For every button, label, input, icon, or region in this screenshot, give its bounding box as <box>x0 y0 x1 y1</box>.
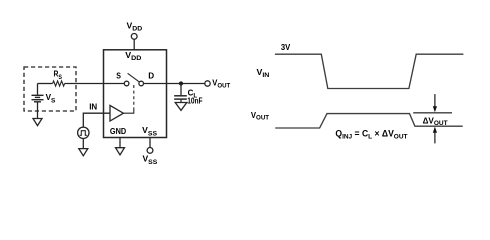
switch IC box <box>104 50 167 138</box>
svg-text:RS: RS <box>54 69 63 81</box>
wire VDD to box <box>133 39 135 50</box>
switch D contact <box>139 81 144 86</box>
wire pulse source to buffer input <box>83 113 110 127</box>
arrow down (delta top) <box>434 94 436 107</box>
svg-text:IN: IN <box>89 101 97 111</box>
resistor RS <box>53 81 65 86</box>
reference level line <box>413 112 452 114</box>
driver buffer <box>110 105 123 121</box>
arrow up (delta bottom) <box>434 132 436 144</box>
wire resistor to switch S <box>65 83 125 85</box>
svg-text:VOUT: VOUT <box>212 78 231 90</box>
svg-text:ΔVOUT: ΔVOUT <box>423 115 449 127</box>
svg-text:10nF: 10nF <box>187 96 202 106</box>
VOUT terminal circle <box>205 81 210 86</box>
svg-text:GND: GND <box>110 126 126 136</box>
VOUT waveform <box>275 114 463 128</box>
source box (dashed) <box>24 67 76 111</box>
VIN waveform <box>275 54 464 88</box>
ground (GND pin) <box>116 148 125 155</box>
VDD terminal circle <box>131 34 137 40</box>
svg-text:VOUT: VOUT <box>251 110 270 122</box>
svg-text:QINJ = CL × ΔVOUT: QINJ = CL × ΔVOUT <box>335 128 408 140</box>
svg-text:VSS: VSS <box>143 153 158 166</box>
wire VSS pin <box>149 138 151 148</box>
capacitor CL <box>180 84 182 96</box>
switch lever <box>128 73 140 82</box>
svg-text:3V: 3V <box>281 42 291 52</box>
svg-text:D: D <box>148 71 154 81</box>
battery VS <box>37 84 39 96</box>
VSS terminal circle <box>147 148 153 154</box>
ground (source) <box>33 119 42 126</box>
svg-text:VIN: VIN <box>257 67 270 79</box>
svg-text:VSS: VSS <box>142 125 157 138</box>
ground (pulse) <box>79 149 88 156</box>
switch control dashed line <box>133 85 135 110</box>
switch S contact <box>124 81 129 86</box>
svg-text:VS: VS <box>46 92 56 104</box>
pulse generator <box>78 127 89 138</box>
svg-text:S: S <box>116 70 121 80</box>
wire GND pin <box>119 138 121 148</box>
ground (capacitor) <box>175 103 187 111</box>
wire buffer output to control <box>123 110 133 114</box>
wire pulse to ground <box>82 139 84 149</box>
svg-text:VDD: VDD <box>125 50 141 62</box>
wire D to VOUT <box>144 83 205 85</box>
junction node <box>179 81 183 85</box>
wire battery top to resistor <box>38 83 53 85</box>
svg-text:VDD: VDD <box>127 20 143 32</box>
